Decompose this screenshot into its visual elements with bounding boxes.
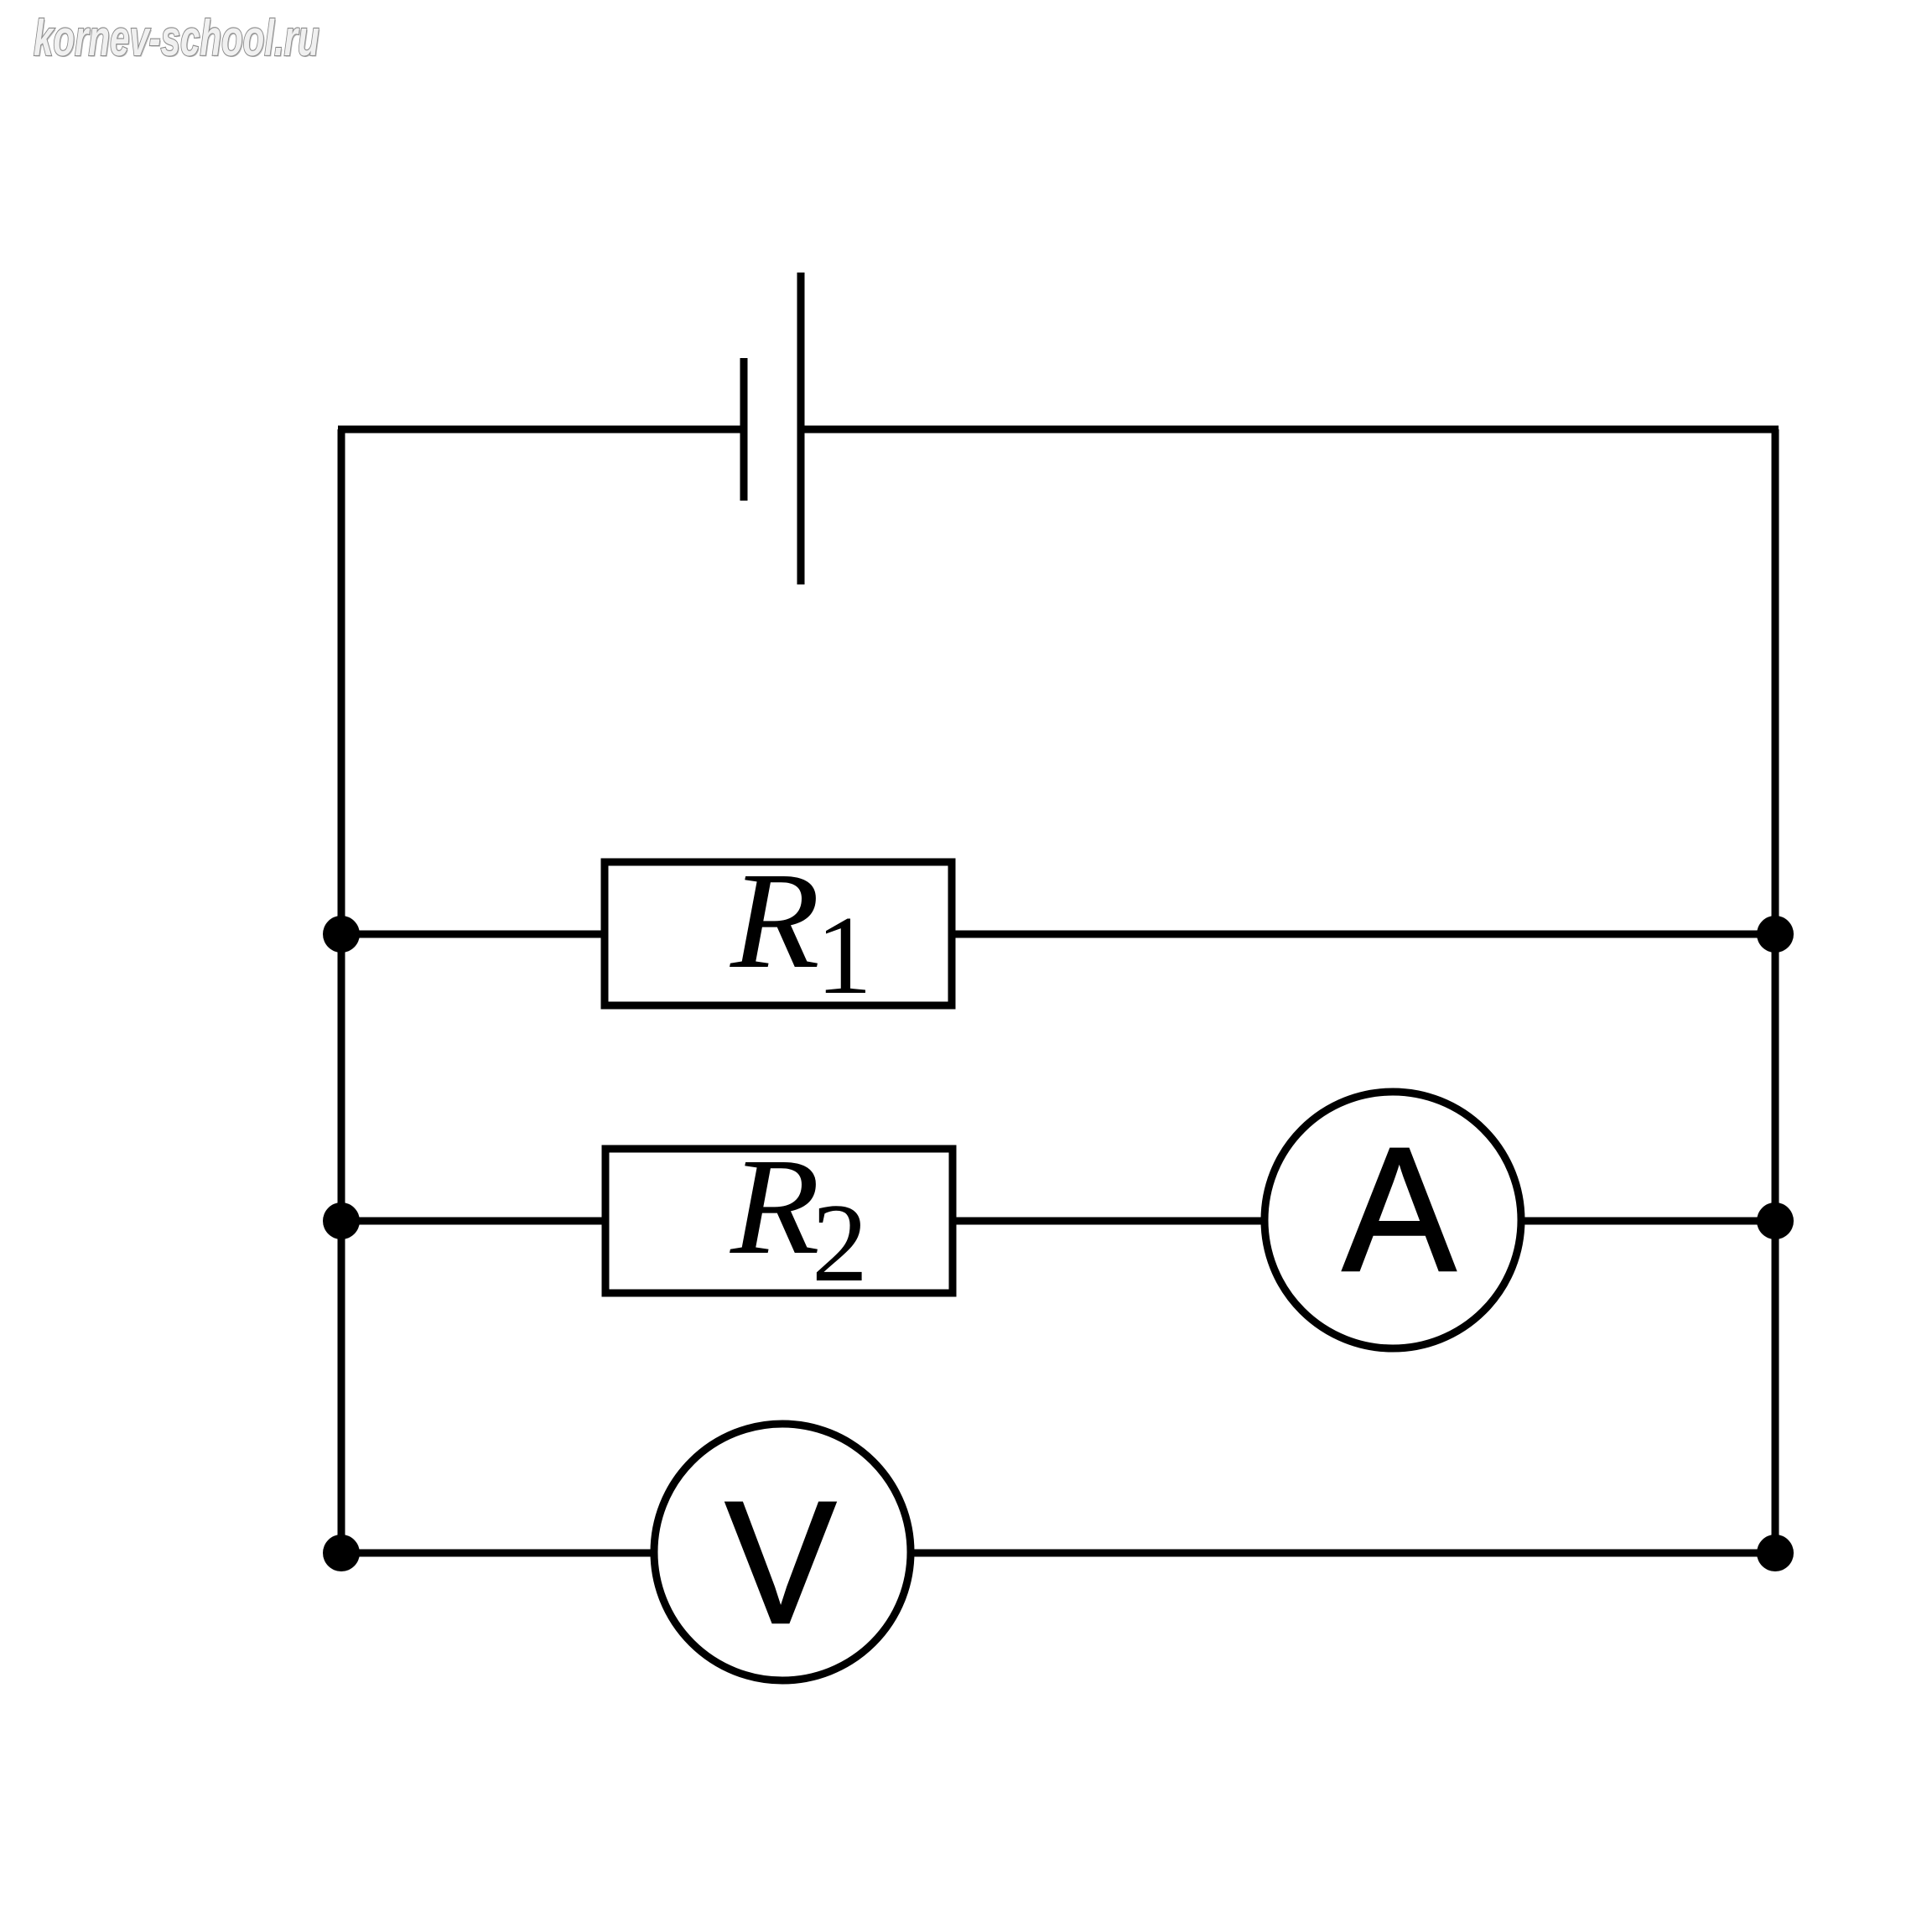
svg-text:V: V	[725, 1466, 837, 1660]
svg-text:1: 1	[816, 893, 872, 1017]
svg-text:kornev-school.ru: kornev-school.ru	[34, 10, 319, 66]
svg-text:R: R	[730, 1129, 820, 1282]
svg-text:A: A	[1343, 1110, 1457, 1308]
svg-text:R: R	[730, 843, 820, 996]
svg-text:2: 2	[812, 1181, 868, 1305]
